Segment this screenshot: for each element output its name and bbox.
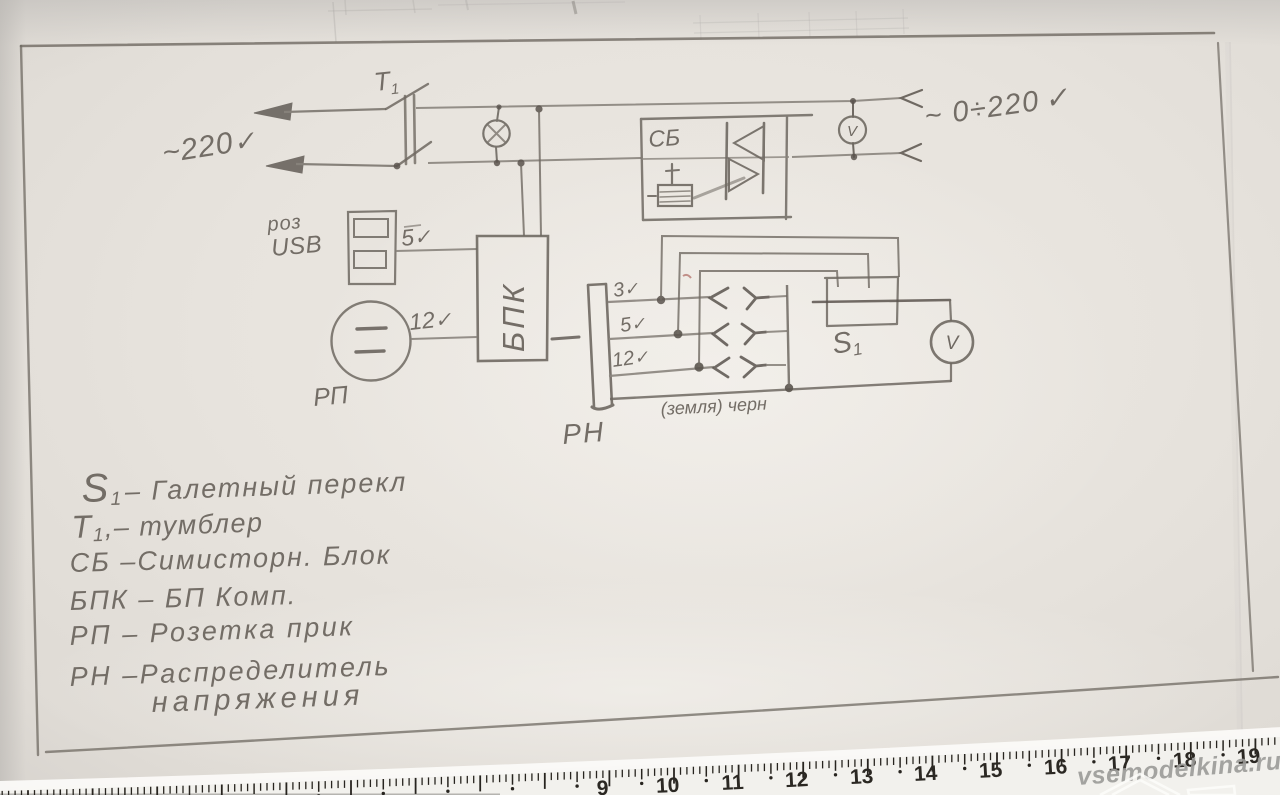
svg-text:14: 14 xyxy=(913,762,938,786)
left arrow upper 220V xyxy=(254,103,386,120)
ruler numbers xyxy=(596,745,1261,795)
gate diagonal in SB xyxy=(694,178,744,198)
svg-text:РП: РП xyxy=(312,381,350,412)
svg-text:РН: РН xyxy=(561,416,606,450)
watermark house icon xyxy=(1100,774,1235,795)
faint background sheet lines top xyxy=(328,0,909,42)
left arrow lower 220V xyxy=(266,156,397,173)
paper fold shadow right xyxy=(1228,42,1240,735)
wire RP 12v to BPK xyxy=(411,337,477,339)
small red mark xyxy=(683,275,691,278)
wire through SB xyxy=(642,157,789,159)
svg-text:9: 9 xyxy=(596,777,609,795)
wire S1 to V2 xyxy=(950,300,951,321)
svg-text:12: 12 xyxy=(784,768,809,792)
regulator element in SB xyxy=(648,164,692,206)
node ground xyxy=(785,384,793,392)
junction node upper wire xyxy=(535,105,542,112)
svg-text:БПК – БП Комп.: БПК – БП Комп. xyxy=(69,580,297,616)
arrow terminal lower right xyxy=(901,144,921,161)
lamp HL xyxy=(483,107,509,162)
svg-text:12✓: 12✓ xyxy=(408,305,453,335)
svg-text:15: 15 xyxy=(978,759,1003,783)
rotary switch S1 box xyxy=(825,277,898,326)
voltmeter V2 xyxy=(931,321,973,363)
triac block SB box xyxy=(641,115,812,220)
socket RP xyxy=(332,302,411,381)
junction node lower wire xyxy=(517,159,524,166)
svg-text:СБ: СБ xyxy=(648,124,681,152)
S1 pole wire xyxy=(813,300,950,302)
wire V2 to ground xyxy=(950,363,952,382)
node 5v xyxy=(674,330,683,339)
wire BPK output dash xyxy=(552,337,579,339)
wire 12v xyxy=(609,367,714,376)
wire SB block to right xyxy=(792,153,901,157)
svg-text:USB: USB xyxy=(270,231,323,262)
arrow terminal top right xyxy=(901,90,922,107)
connector pair 3v xyxy=(710,288,769,309)
voltage distributor RN bar xyxy=(588,284,613,409)
svg-text:13: 13 xyxy=(849,765,874,789)
wire lower 220V to SB block xyxy=(428,158,641,163)
power supply unit BPK xyxy=(477,236,548,361)
svg-text:11: 11 xyxy=(721,771,745,795)
ruler body xyxy=(0,737,1280,795)
connector common bus vertical xyxy=(787,285,789,388)
toggle switch T1 xyxy=(386,84,431,166)
node 3v xyxy=(657,296,665,304)
wire drop to BPK right xyxy=(539,109,541,236)
ruler ticks xyxy=(2,737,1280,795)
wire drop to BPK left xyxy=(521,163,524,236)
link wire 3v to S1 xyxy=(661,236,899,300)
USB socket block xyxy=(348,211,396,284)
connector pair 5v xyxy=(713,324,766,345)
svg-text:16: 16 xyxy=(1043,755,1068,779)
connector pair 12v xyxy=(714,357,766,377)
triac symbol in SB xyxy=(726,123,764,199)
wire USB 5v to BPK xyxy=(396,249,477,251)
wire top 220V xyxy=(416,98,901,108)
voltmeter V1 xyxy=(839,101,866,157)
node 12v xyxy=(694,362,703,371)
ground wire xyxy=(610,381,951,399)
svg-text:БПК: БПК xyxy=(496,282,531,352)
svg-text:10: 10 xyxy=(655,774,679,795)
link wire 12v to S1 xyxy=(699,271,838,367)
wire 3v xyxy=(608,297,710,302)
wire 5v xyxy=(609,333,713,339)
link wire 5v to S1 xyxy=(678,253,869,334)
